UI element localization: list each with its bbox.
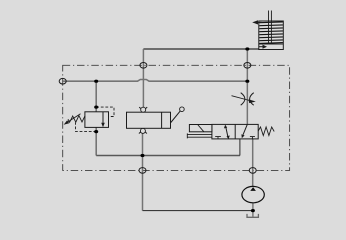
cooler coolant pipes (269, 11, 272, 45)
port circle bottom edge (center line) (139, 168, 146, 174)
junction dot relief top (94, 106, 98, 109)
port circle left edge (59, 78, 66, 84)
valve return spring (258, 127, 274, 136)
wire tank line y=210.6 (143, 210, 253, 212)
relief valve V1 drain pilot left (dashed) (76, 123, 97, 132)
junction dot return center (141, 154, 145, 157)
solenoid under-lines (187, 133, 212, 138)
relief valve V1 pilot line right (dashed) (96, 107, 114, 116)
cooler / heat exchanger box (259, 21, 284, 50)
relief valve V1 body (85, 112, 109, 128)
relief valve V1 spring (68, 116, 85, 123)
wire main pressure line y=81.2 with hop (63, 80, 247, 82)
check port top (ball seat) (139, 107, 147, 109)
relief valve V1 adjustment arrow (66, 114, 81, 124)
right position blocked port T (250, 137, 255, 139)
right position flow diagonal with arrow (243, 124, 247, 134)
junction dot main line / relief branch (94, 80, 98, 83)
check port bottom (ball seat) (139, 131, 147, 133)
junction dot relief bottom (94, 130, 98, 133)
wire vertical x=96.2 relief valve branch (95, 81, 97, 155)
directional valve V2 divider (234, 124, 236, 138)
directional valve V2 body (212, 124, 258, 138)
hand pump B1 body (127, 112, 171, 128)
wire vertical x=143.4 (top) (142, 49, 144, 107)
junction dot main/throttle (245, 80, 249, 83)
enclosure boundary (dash-dot machine frame) (63, 65, 290, 170)
tank T1 (247, 214, 258, 217)
port circle top edge (center line) (140, 63, 147, 69)
wire valve port to return (239, 139, 241, 156)
hand pump B1 divider (161, 112, 163, 128)
left position double arrow (226, 127, 228, 137)
hand pump B1 lever (171, 111, 181, 123)
junction dot pump tank (251, 209, 255, 212)
port circle bottom edge (pump line) (249, 168, 256, 174)
junction dot top run (245, 47, 249, 50)
wire vertical x=247.35 to throttle and valve (246, 49, 248, 124)
wire center vertical lower x=142.5 (142, 133, 144, 210)
cooler inlet arrow (bottom band) (259, 46, 263, 48)
port circle top edge (right line) (244, 63, 251, 69)
wire return line y=155.5 (96, 155, 240, 157)
cooler outlet arrow (top-left) (256, 21, 262, 23)
wire pump to tank (252, 203, 254, 217)
left position blocked port T (215, 137, 221, 139)
wire valve to pump x=252.7 (252, 139, 254, 187)
cooler coil zigzag (259, 22, 283, 44)
pump P1 (242, 186, 264, 202)
relief valve V1 flow arrow (102, 112, 104, 123)
solenoid actuator box (189, 125, 212, 132)
wire top run y=49 (143, 48, 259, 50)
variable throttle valve (241, 93, 245, 106)
